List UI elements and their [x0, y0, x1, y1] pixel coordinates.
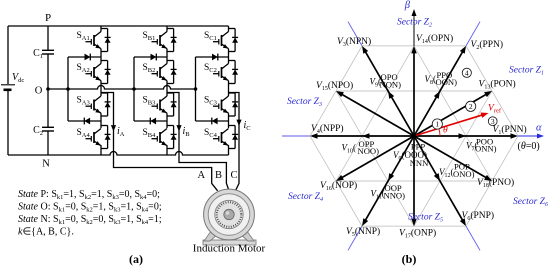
current arrow iB: [176, 125, 181, 131]
svg-text:(θ=0): (θ=0): [518, 141, 540, 152]
axis alpha: [518, 135, 539, 137]
svg-text:k∈{A, B, C}.: k∈{A, B, C}.: [18, 227, 74, 238]
transistor SC3 (IGBT): [204, 96, 229, 114]
wire phase A output: [101, 93, 218, 191]
svg-text:Sector Z4: Sector Z4: [288, 192, 323, 203]
transistor SC2 (IGBT): [204, 63, 229, 81]
svg-text:V3(NPN): V3(NPN): [337, 36, 371, 48]
wire clamp branch leg C: [196, 57, 229, 121]
vector V17 (medium, 270 deg): [413, 136, 415, 220]
svg-text:V6(PNP): V6(PNP): [462, 210, 495, 222]
transistor SA1 (IGBT): [77, 31, 102, 49]
svg-text:1: 1: [435, 120, 439, 129]
diode antiparallel with SB3: [167, 93, 177, 116]
vector V4 (large, 180 deg): [316, 135, 414, 137]
diode antiparallel with SA4: [101, 126, 111, 149]
svg-text:3: 3: [491, 117, 495, 126]
wire phase C output: [229, 93, 240, 191]
hexagon grid (triangular subdivision): [310, 46, 518, 226]
svg-text:α: α: [536, 123, 542, 134]
vector V11 (small, 240 deg): [388, 173, 394, 181]
junction dot O rail / leg B clamp: [132, 87, 136, 91]
wire phase B output: [167, 93, 229, 191]
svg-text:V14(OPN): V14(OPN): [416, 33, 453, 45]
diode antiparallel with SB4: [167, 126, 177, 149]
svg-text:N: N: [42, 159, 50, 170]
wire top rail P: [8, 25, 229, 27]
axis beta: [413, 15, 415, 46]
vector V14 (medium, 90 deg): [413, 52, 415, 136]
transistor SB2 (IGBT): [143, 63, 168, 81]
wire leg C stack: [228, 26, 230, 155]
wire N rail (bottom dc bus): [8, 152, 229, 155]
diode antiparallel with SC4: [229, 126, 239, 149]
transistor SB1 (IGBT): [143, 31, 168, 49]
vector V7 (small, 0 deg): [459, 133, 467, 139]
svg-text:V15(NPO): V15(NPO): [316, 80, 353, 92]
svg-text:O: O: [35, 86, 43, 97]
diode clamp upper leg A: [85, 54, 91, 61]
vector V18 (medium, 330 deg): [414, 136, 487, 178]
junction dot O rail / leg C clamp: [194, 87, 198, 91]
svg-text:V17(ONP): V17(ONP): [399, 228, 436, 240]
svg-text:ONN): ONN): [475, 144, 497, 154]
svg-text:ONO): ONO): [453, 169, 475, 179]
diode clamp lower leg A: [84, 118, 90, 125]
svg-text:V1(PNN): V1(PNN): [493, 124, 527, 136]
diode clamp lower leg C: [212, 118, 218, 125]
wire O rail (neutral) with hops over legs: [48, 86, 196, 90]
svg-text:NNO): NNO): [384, 190, 406, 200]
capacitor C2: [33, 125, 54, 155]
svg-text:Sector Z6: Sector Z6: [513, 197, 548, 208]
vector V1 (large, 0 deg): [414, 135, 512, 137]
vector V2 (large, 60 deg): [414, 51, 463, 136]
diode antiparallel with SB1: [167, 29, 177, 52]
transistor SC4 (IGBT): [204, 128, 229, 146]
current arrow iC: [236, 120, 241, 126]
transistor SC1 (IGBT): [204, 31, 229, 49]
svg-text:4: 4: [465, 68, 469, 77]
wire leg A stack: [100, 26, 102, 155]
svg-text:P: P: [45, 12, 51, 24]
svg-text:V18(PNO): V18(PNO): [477, 177, 514, 189]
vector V3 (large, 120 deg): [365, 51, 414, 136]
reference vector Vref (red): [414, 115, 483, 136]
svg-text:Sector Z5: Sector Z5: [408, 213, 443, 224]
svg-text:C: C: [230, 170, 237, 181]
current arrow iA: [111, 125, 116, 131]
vector V5 (large, 240 deg): [365, 136, 414, 221]
diode antiparallel with SA3: [101, 93, 111, 116]
vector V13 (medium, 30 deg): [414, 94, 487, 136]
svg-text:Sector Z3: Sector Z3: [287, 97, 322, 108]
transistor SA4 (IGBT): [77, 128, 102, 146]
svg-text:θ: θ: [443, 126, 448, 136]
svg-text:V2(PPN): V2(PPN): [471, 39, 504, 51]
label V0 (PPP/OOO/NNN): [393, 141, 429, 168]
region marker 2: [466, 101, 476, 111]
transistor SA2 (IGBT): [77, 63, 102, 81]
svg-text:2: 2: [469, 102, 473, 111]
junction dot O rail / leg A clamp: [66, 87, 70, 91]
svg-text:V5(NNP): V5(NNP): [346, 226, 380, 238]
induction motor: [203, 189, 256, 245]
vector V10 (small, 180 deg): [362, 133, 370, 139]
wire leg B stack: [166, 26, 168, 155]
diode clamp lower leg B: [150, 118, 156, 125]
vector V8 (small, 60 deg): [434, 91, 440, 99]
transistor SA3 (IGBT): [77, 96, 102, 114]
svg-text:V13(PON): V13(PON): [479, 79, 516, 91]
vector V9 (small, 120 deg): [388, 91, 394, 99]
svg-text:(b): (b): [402, 252, 417, 266]
angle theta arc (red): [439, 129, 440, 137]
vector V12 (small, 300 deg): [434, 173, 440, 181]
diode antiparallel with SA1: [101, 29, 111, 52]
diode antiparallel with SC1: [229, 29, 239, 52]
vector V15 (medium, 150 deg): [341, 94, 414, 136]
svg-text:NNN: NNN: [410, 158, 429, 168]
battery Vdc: [1, 26, 24, 155]
svg-text:NOO): NOO): [358, 146, 380, 156]
capacitor C1: [33, 26, 54, 127]
svg-text:NON): NON): [380, 79, 402, 89]
vector V6 (large, 300 deg): [414, 136, 463, 221]
diode clamp upper leg C: [212, 54, 218, 61]
diode clamp upper leg B: [151, 54, 157, 61]
svg-text:(a): (a): [129, 252, 143, 266]
region marker 3: [488, 117, 497, 126]
wire clamp branch leg A: [68, 57, 101, 121]
svg-text:A: A: [198, 170, 206, 181]
state definition text: [18, 189, 162, 238]
transistor SB4 (IGBT): [143, 128, 168, 146]
svg-text:Sector Z1: Sector Z1: [509, 66, 544, 77]
diode antiparallel with SA2: [101, 61, 111, 84]
vector V16 (medium, 210 deg): [341, 136, 414, 178]
origin node dot: [412, 134, 417, 139]
svg-text:B: B: [215, 170, 222, 181]
region marker 4: [462, 68, 471, 77]
svg-text:β: β: [404, 0, 411, 11]
region marker 1: [432, 119, 442, 129]
transistor SB3 (IGBT): [143, 96, 168, 114]
svg-text:Sector Z2: Sector Z2: [397, 18, 432, 29]
svg-text:V4(NPP): V4(NPP): [311, 123, 344, 135]
svg-text:Induction Motor: Induction Motor: [193, 243, 266, 255]
wire clamp branch leg B: [134, 57, 167, 121]
diode antiparallel with SC3: [229, 93, 239, 116]
junction dot O-capacitor: [46, 87, 50, 91]
svg-text:V16(NOP): V16(NOP): [320, 180, 357, 192]
sector boundary extensions (blue): [282, 22, 480, 251]
svg-text:OON): OON): [436, 77, 458, 87]
diode antiparallel with SB2: [167, 61, 177, 84]
diode antiparallel with SC2: [229, 61, 239, 84]
